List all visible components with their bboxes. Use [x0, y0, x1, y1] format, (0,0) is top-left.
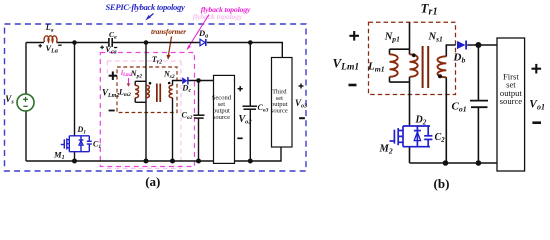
svg-text:source: source	[500, 96, 523, 106]
svg-text:SEPIC-flyback topology: SEPIC-flyback topology	[105, 2, 185, 12]
svg-text:source: source	[271, 107, 288, 114]
svg-text:source: source	[213, 114, 230, 121]
svg-text:(a): (a)	[145, 174, 160, 189]
svg-text:transformer: transformer	[151, 27, 186, 36]
svg-text:(b): (b)	[434, 176, 450, 191]
svg-text:flyback topology: flyback topology	[201, 5, 251, 14]
